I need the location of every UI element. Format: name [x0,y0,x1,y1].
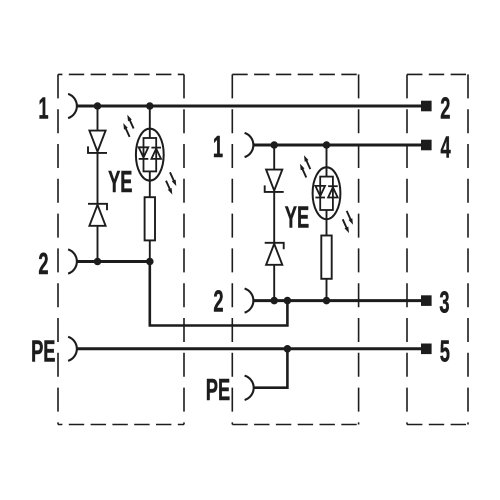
LED H2 inner bridge frame [320,177,333,210]
wire X1 suppressor branch segments [97,106,99,262]
connector X2 dashed outline (middle valve plug) [232,74,358,424]
svg-text:YE: YE [108,165,132,199]
connector X1 dashed outline (left valve plug) [58,74,184,424]
svg-text:PE: PE [31,335,55,369]
wire net 1M: X2 pin1 to terminal 4 [254,144,421,147]
wire net 2L: X1 pin2 row [78,260,150,263]
LED H1 left chip (cathode down) [139,147,149,159]
wire net 2M: X2 pin2 row to terminal 3 [254,299,421,302]
LED H1 envelope (X1, yellow indicator) [136,129,164,181]
junction dot rail1M at branch H2 [323,141,331,149]
terminal square 3 [421,295,432,306]
socket arc X2 pin PE [245,376,254,400]
LED H2 right chip (cathode up) [328,186,338,197]
LED H2 envelope (X2, yellow indicator) [313,167,341,219]
svg-text:3: 3 [439,286,449,320]
socket arc X1 pin 2 [68,249,77,273]
wire PE stub: X2 PE up to PE net [254,349,287,388]
wire net 1L: X1 pin1 to terminal 2 [78,105,422,108]
svg-text:YE: YE [285,201,309,235]
junction dot row2M at branch V4 [270,297,278,305]
LED H2 emission arrows bottom-right [343,211,353,233]
junction dot PE net at X2 PE stub [284,345,292,353]
zener diode V1 (X1, cathode down) [88,131,107,153]
socket arc X2 pin 1 [245,133,254,157]
connector X3 dashed outline (right terminal block) [407,74,468,424]
svg-text:2: 2 [213,285,223,319]
svg-text:5: 5 [440,335,450,369]
socket arc X1 pin 1 [68,94,77,118]
wire jog: X1 pin2 down-right-up to X2 pin2 row [150,262,288,326]
zener diode V3 (X2, cathode down) [265,170,284,192]
junction dot row2L at branch V2 [94,258,102,266]
junction dot row2L at branch R1 [146,258,154,266]
junction dot row2M at jog [284,297,292,305]
zener diode V4 (X2, cathode up) [265,243,284,265]
wire net PE: X1 PE to terminal 5 [78,347,422,350]
resistor R1 (X1) [145,197,155,240]
LED H1 emission arrows top-left [123,115,133,137]
socket arc X2 pin 2 [245,289,254,313]
svg-text:2: 2 [440,92,450,126]
LED H2 left chip (cathode down) [315,186,325,198]
LED H1 emission arrows bottom-right [166,172,176,194]
terminal square 5 [421,344,432,355]
LED H2 emission arrows top-left [300,155,310,177]
wire X2 suppressor branch segments [273,145,275,301]
svg-text:1: 1 [38,92,48,126]
junction dot row2M at branch R2 [323,297,331,305]
wire X1 LED branch segments [149,106,151,262]
junction dot rail1L at branch V1 [94,102,102,110]
svg-text:2: 2 [38,247,48,281]
wire X2 LED branch segments [326,145,328,301]
svg-text:4: 4 [441,131,451,165]
resistor R2 (X2) [321,236,331,279]
zener diode V2 (X1, cathode up) [88,204,107,226]
terminal square 2 [421,101,432,112]
terminal square 4 [421,140,432,151]
junction dot rail1M at branch V3 [270,141,278,149]
junction dot rail1L at branch H1 [146,102,154,110]
socket arc X1 pin PE [68,337,77,361]
LED H1 inner bridge frame [144,138,157,171]
LED H1 right chip (cathode up) [151,148,161,159]
svg-text:1: 1 [213,130,223,164]
svg-text:PE: PE [206,373,230,407]
